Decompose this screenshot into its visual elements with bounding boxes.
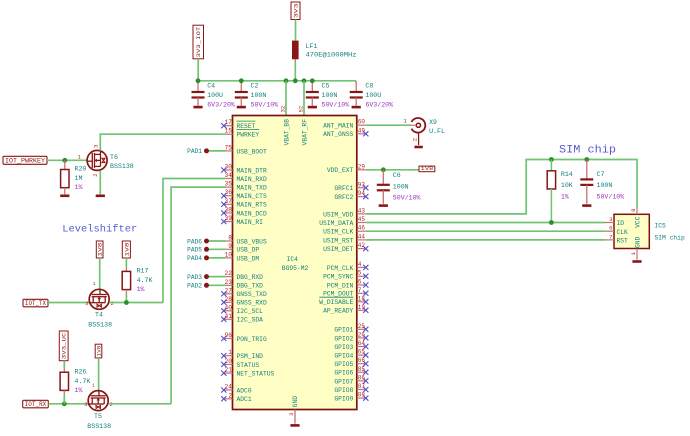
svg-text:20: 20 [225,358,233,365]
svg-text:USIM_VDD: USIM_VDD [323,211,353,218]
ground [379,204,388,207]
transistor Q T6 BSS138 [87,145,134,177]
svg-text:VCC: VCC [634,216,641,228]
svg-text:PCM_DIN: PCM_DIN [327,282,354,289]
power label 1V8 [419,166,435,172]
svg-text:IOT_TX: IOT_TX [25,300,46,307]
svg-text:6V3/20%: 6V3/20% [365,101,393,108]
svg-text:1%: 1% [75,184,83,191]
svg-text:BSS138: BSS138 [87,423,111,430]
svg-text:USIM_CLK: USIM_CLK [323,229,353,236]
wire [48,302,90,304]
ground [193,106,202,109]
wire [163,179,226,303]
svg-text:49: 49 [358,127,366,134]
svg-text:GPIO3: GPIO3 [334,344,353,351]
svg-text:27: 27 [225,287,233,294]
svg-text:PAD5: PAD5 [187,247,202,254]
svg-text:3V3_IOT: 3V3_IOT [196,26,202,58]
junction [124,300,129,305]
pin 25 GPIO1 [334,323,368,334]
pin 8 USB_VBUS [224,235,267,246]
svg-text:GPIO6: GPIO6 [334,370,353,377]
svg-text:2: 2 [228,392,232,399]
wire [366,169,419,171]
capacitor C8 [350,81,393,109]
svg-text:8: 8 [228,235,232,242]
svg-text:BG95-M2: BG95-M2 [282,265,309,272]
svg-text:85: 85 [358,366,366,373]
svg-text:GNSS_TXD: GNSS_TXD [237,291,267,298]
pin 43 USIM_VDD [323,207,366,218]
svg-text:CLK: CLK [617,229,629,236]
svg-text:29: 29 [358,163,366,170]
svg-text:15: 15 [225,128,233,135]
svg-text:PAD1: PAD1 [187,148,202,155]
svg-text:23: 23 [225,279,233,286]
ground [308,106,317,109]
section title Levelshifter [62,223,137,235]
svg-text:96: 96 [225,332,233,339]
svg-text:93: 93 [358,181,366,188]
capacitor C6 [377,170,421,204]
svg-text:100N: 100N [251,92,267,99]
svg-text:PAD6: PAD6 [187,238,202,245]
svg-text:U.FL: U.FL [429,128,445,135]
svg-text:7: 7 [609,233,612,240]
svg-text:1: 1 [228,349,232,356]
svg-text:3V3: 3V3 [294,4,300,18]
node PAD4 [187,255,209,262]
svg-text:PAD4: PAD4 [187,255,202,262]
pin 9 USB_DP [224,243,260,254]
wire [209,276,226,278]
pin 49 ANT_GNSS [323,127,368,138]
svg-text:VBAT_BB: VBAT_BB [283,119,290,146]
pin 3 GND [288,396,299,424]
power label 1V8 gate T4 [96,241,103,258]
svg-text:PAD2: PAD2 [187,283,202,290]
svg-text:MAIN_CTS: MAIN_CTS [237,193,267,200]
svg-text:PCM_SYNC: PCM_SYNC [323,274,353,281]
svg-text:32: 32 [279,106,286,113]
svg-text:30: 30 [225,164,233,171]
svg-text:MAIN_RTS: MAIN_RTS [237,202,267,209]
svg-text:1%: 1% [561,193,569,200]
svg-text:C2: C2 [251,82,259,89]
pin 17 RESET [221,119,255,130]
svg-text:3: 3 [288,412,295,415]
svg-text:1V8: 1V8 [421,166,434,172]
pin 2 ADC1 [221,392,252,403]
ground [96,195,105,198]
capacitor C4 [192,81,235,109]
svg-text:GND: GND [292,396,299,408]
svg-text:6: 6 [358,279,362,286]
svg-text:10: 10 [225,251,233,258]
svg-text:45: 45 [358,216,366,223]
svg-text:C8: C8 [365,82,373,89]
pin 21 NET_STATUS [221,367,274,378]
pin 29 VDD_EXT [327,163,366,174]
svg-text:1%: 1% [75,387,83,394]
pin 46 USIM_CLK [323,225,366,236]
wire [209,284,226,286]
svg-text:I2C_SDA: I2C_SDA [237,317,264,324]
pin 3 ID [605,216,624,227]
svg-text:GND: GND [634,236,641,248]
wire [100,134,225,150]
resistor R20 [61,160,87,194]
junction [302,78,307,83]
svg-text:PSM_IND: PSM_IND [237,353,264,360]
power label 3V3 [291,2,300,20]
pin 87 GPIO8 [334,383,368,394]
svg-text:LF1: LF1 [306,43,318,50]
svg-text:2: 2 [412,138,419,141]
power label 1V8 R17 [122,241,130,258]
svg-text:C6: C6 [393,172,401,179]
pin 1 of T6 [78,154,82,161]
resistor R14 [547,160,573,223]
pin 39 MAIN_RI [221,215,263,226]
svg-text:MAIN_RI: MAIN_RI [237,219,264,226]
svg-text:IC5: IC5 [655,223,667,230]
pin 85 GPIO6 [334,366,368,377]
wire [295,20,297,41]
pin 44 USIM_RST [323,233,366,244]
connector X9 U.FL [403,118,445,145]
node PAD3 [187,274,209,281]
svg-text:IC4: IC4 [287,256,299,263]
svg-text:BSS138: BSS138 [110,163,134,170]
wire [366,124,412,126]
pin 94 GRFC2 [334,190,368,201]
junction [62,401,67,406]
pin 38 MAIN_DCD [221,206,267,217]
pin 66 GPIO5 [334,357,368,368]
junction [381,167,386,172]
node PAD5 [187,247,209,254]
wire [99,170,101,194]
svg-text:4: 4 [358,261,362,268]
svg-text:GPIO2: GPIO2 [334,335,353,342]
pin 1 of T5 [92,383,95,389]
svg-text:88: 88 [358,392,366,399]
wire [366,160,637,214]
node PAD1 [187,148,209,155]
power label 1V8 gate T5 [95,344,102,358]
svg-text:VDD_EXT: VDD_EXT [327,167,354,174]
svg-text:64: 64 [358,340,366,347]
svg-text:18: 18 [358,295,366,302]
svg-text:94: 94 [358,190,366,197]
global label IOT_PWRKEY [3,156,47,164]
svg-text:GRFC2: GRFC2 [334,194,353,201]
svg-text:USB_VBUS: USB_VBUS [237,238,267,245]
svg-text:IOT_RX: IOT_RX [25,401,47,408]
svg-text:GPIO5: GPIO5 [334,361,353,368]
svg-text:1V8: 1V8 [97,346,103,357]
svg-text:PCM_CLK: PCM_CLK [327,265,354,272]
svg-text:USIM_DATA: USIM_DATA [319,220,353,227]
pin 4 PCM_CLK [327,261,369,272]
svg-text:STATUS: STATUS [237,362,260,369]
svg-text:10K: 10K [561,182,573,189]
svg-text:7: 7 [358,287,362,294]
svg-text:Levelshifter: Levelshifter [62,223,137,235]
junction [239,78,244,83]
svg-text:100N: 100N [322,92,338,99]
svg-text:3V3_UC: 3V3_UC [62,333,68,360]
svg-text:65: 65 [358,349,366,356]
power label 3V3_UC [59,331,68,361]
ground [60,195,69,198]
svg-text:RST: RST [617,238,629,245]
ground [414,146,422,149]
power label 3V3_IOT [193,25,204,59]
wire [108,403,171,405]
wire [209,248,226,250]
svg-text:ANT_GNSS: ANT_GNSS [323,131,353,138]
pin 7 PCM_DOUT [323,287,368,298]
svg-text:RESET: RESET [237,123,256,130]
svg-text:ADC0: ADC0 [237,387,252,394]
junction [293,78,298,83]
svg-text:GNSS_RXD: GNSS_RXD [237,300,267,307]
pin 64 GPIO3 [334,340,368,351]
svg-text:ADC1: ADC1 [237,396,252,403]
svg-text:60: 60 [358,119,366,126]
svg-text:T4: T4 [95,312,103,319]
node PAD2 [187,283,209,290]
svg-text:1: 1 [93,281,96,287]
svg-text:100U: 100U [365,92,381,99]
ground [352,106,361,109]
wire [303,81,305,116]
pin 1 of T4 [93,281,96,287]
pin 93 GRFC1 [334,181,368,192]
svg-text:2: 2 [92,173,99,176]
ground [237,106,246,109]
pin 86 GPIO7 [334,374,368,385]
svg-text:3: 3 [93,145,100,148]
wire [197,59,199,81]
svg-text:50V/10%: 50V/10% [597,193,625,200]
svg-text:3: 3 [84,401,87,408]
pin 22 DBG_RXD [224,270,263,281]
svg-text:28: 28 [225,296,233,303]
svg-text:6: 6 [609,225,612,232]
svg-text:ANT_MAIN: ANT_MAIN [323,123,353,130]
svg-text:VBAT_RF: VBAT_RF [301,119,308,146]
svg-text:C5: C5 [322,82,330,89]
pin 36 MAIN_CTS [221,189,267,200]
svg-text:1V8: 1V8 [124,243,130,257]
svg-text:100N: 100N [597,182,613,189]
svg-text:R26: R26 [75,368,87,375]
svg-text:50V/10%: 50V/10% [322,101,350,108]
svg-text:GRFC1: GRFC1 [334,185,353,192]
junction [284,78,289,83]
IC U IC4 BG95-M2 body [233,116,357,410]
pin 65 GPIO4 [334,349,368,360]
pin 35 MAIN_TXD [224,181,267,192]
junction [62,158,67,163]
svg-text:PON_TRIG: PON_TRIG [237,336,267,343]
pin 52 VBAT_RF [297,106,308,146]
pin 28 GNSS_RXD [221,296,267,307]
pin 26 GPIO2 [334,331,368,342]
svg-text:DBG_TXD: DBG_TXD [237,283,264,290]
pin 1 PSM_IND [221,349,263,360]
junction [549,220,554,225]
svg-text:75: 75 [225,144,233,151]
svg-text:36: 36 [225,189,233,196]
ferrite bead LF1 [292,41,357,64]
capacitor C5 [306,81,349,109]
svg-text:35: 35 [225,181,233,188]
junction [310,78,315,83]
svg-text:4.7K: 4.7K [137,277,153,284]
wire [99,258,101,290]
svg-text:GPIO1: GPIO1 [334,327,353,334]
svg-text:T6: T6 [110,154,118,161]
ground [582,204,591,207]
pin 96 PON_TRIG [221,332,267,343]
capacitor C2 [235,81,278,109]
svg-text:22: 22 [225,270,233,277]
svg-text:4.7K: 4.7K [75,378,91,385]
svg-text:AP_READY: AP_READY [323,308,353,315]
svg-text:MAIN_DCD: MAIN_DCD [237,210,267,217]
svg-text:26: 26 [358,331,366,338]
pin 19 AP_READY [323,304,368,315]
svg-text:X9: X9 [429,119,437,126]
svg-text:19: 19 [358,304,366,311]
svg-text:8: 8 [630,208,637,211]
svg-text:GPIO7: GPIO7 [334,378,353,385]
svg-text:34: 34 [225,172,233,179]
junction [196,78,201,83]
svg-text:SIM chip: SIM chip [655,235,685,242]
svg-text:PAD3: PAD3 [187,274,202,281]
svg-text:T5: T5 [94,413,102,420]
pin 24 ADC0 [221,384,252,395]
svg-text:44: 44 [358,233,366,240]
svg-text:1%: 1% [137,286,145,293]
svg-text:6V3/20%: 6V3/20% [207,101,235,108]
svg-text:BSS138: BSS138 [88,322,112,329]
svg-text:38: 38 [225,206,233,213]
svg-text:R20: R20 [75,166,87,173]
transistor Q T5 BSS138 [84,391,113,430]
svg-text:ID: ID [617,220,625,227]
svg-text:3: 3 [85,300,88,307]
pin 60 ANT_MAIN [323,119,366,130]
svg-text:470E@1000MHz: 470E@1000MHz [306,52,357,59]
svg-text:I2C_SCL: I2C_SCL [237,308,264,315]
svg-text:100N: 100N [393,183,409,190]
svg-text:5: 5 [358,270,362,277]
svg-text:3: 3 [609,216,612,223]
svg-text:SIM chip: SIM chip [559,144,616,156]
wire [48,403,89,405]
capacitor C7 [580,160,624,204]
ground [290,424,299,427]
pin 15 PWRKEY [224,128,260,139]
svg-text:46: 46 [358,225,366,232]
svg-text:USIM_RST: USIM_RST [323,237,353,244]
wire [366,239,605,241]
wire [209,257,226,259]
svg-text:MAIN_DTR: MAIN_DTR [237,167,267,174]
pin 37 MAIN_RTS [221,198,267,209]
pin 20 STATUS [221,358,259,369]
svg-text:IOT_PWRKEY: IOT_PWRKEY [5,158,45,165]
global label IOT_TX [23,299,48,307]
svg-text:41: 41 [225,313,233,320]
svg-text:50V/10%: 50V/10% [393,195,421,202]
svg-text:25: 25 [358,323,366,330]
node PAD6 [187,238,209,245]
section title SIM chip [559,144,616,156]
svg-text:1: 1 [92,383,95,389]
junction [549,157,554,162]
svg-text:USB_DM: USB_DM [237,255,260,262]
svg-text:43: 43 [358,207,366,214]
svg-text:PCM_DOUT: PCM_DOUT [323,291,353,298]
svg-text:GPIO9: GPIO9 [334,396,353,403]
svg-text:MAIN_RXD: MAIN_RXD [237,176,267,183]
svg-text:100U: 100U [207,92,223,99]
svg-text:66: 66 [358,357,366,364]
pin 42 USIM_DET [323,242,368,253]
pin 5 PCM_SYNC [323,270,368,281]
svg-text:50V/10%: 50V/10% [251,101,279,108]
pin 10 USB_DM [224,251,260,262]
pin 45 USIM_DATA [319,216,365,227]
pin 27 GNSS_TXD [221,287,267,298]
svg-text:NET_STATUS: NET_STATUS [237,371,275,378]
svg-text:R17: R17 [137,267,149,274]
wire [98,358,100,391]
svg-text:USB_BOOT: USB_BOOT [237,148,267,155]
svg-text:37: 37 [225,198,233,205]
resistor R17 [122,258,152,303]
wire [285,81,287,116]
wire [198,80,356,82]
pin 23 DBG_TXD [224,279,263,290]
wire [209,240,226,242]
svg-text:39: 39 [225,215,233,222]
pin 41 I2C_SDA [221,313,263,324]
svg-text:87: 87 [358,383,366,390]
pin 88 GPIO9 [334,392,368,403]
svg-text:USIM_DET: USIM_DET [323,246,353,253]
svg-text:C4: C4 [207,82,215,89]
ground [632,260,641,263]
wire [209,150,226,152]
svg-text:DBG_RXD: DBG_RXD [237,274,264,281]
svg-text:42: 42 [358,242,366,249]
svg-text:1M: 1M [75,175,83,182]
pin 18 W_DISABLE [319,295,368,306]
svg-text:MAIN_TXD: MAIN_TXD [237,185,267,192]
svg-text:1V8: 1V8 [98,243,104,257]
wire [47,159,88,161]
svg-text:R14: R14 [561,171,573,178]
